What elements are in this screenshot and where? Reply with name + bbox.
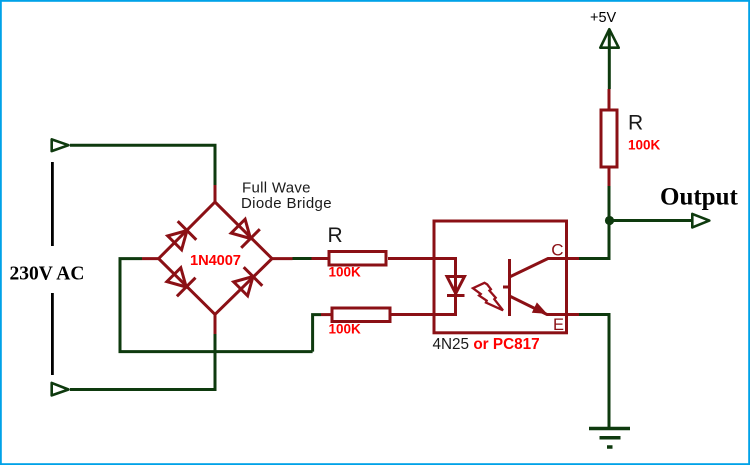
svg-text:1N4007: 1N4007 xyxy=(190,253,241,269)
svg-text:100K: 100K xyxy=(329,265,362,280)
svg-text:+5V: +5V xyxy=(590,10,617,26)
svg-text:230V AC: 230V AC xyxy=(10,263,85,284)
svg-text:4N25 or PC817: 4N25 or PC817 xyxy=(433,336,540,353)
svg-text:R: R xyxy=(628,112,643,135)
svg-text:C: C xyxy=(551,240,563,259)
svg-text:Output: Output xyxy=(660,184,738,211)
svg-text:E: E xyxy=(553,316,564,334)
svg-text:R: R xyxy=(328,224,343,247)
svg-text:100K: 100K xyxy=(329,322,362,337)
svg-text:Diode Bridge: Diode Bridge xyxy=(241,195,332,212)
svg-text:100K: 100K xyxy=(628,138,661,153)
